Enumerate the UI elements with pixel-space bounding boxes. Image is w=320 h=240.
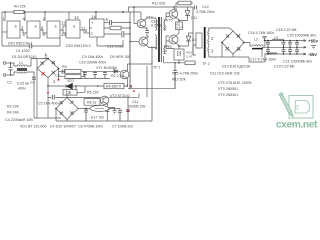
capacitor C9 [83, 71, 87, 78]
wire bridge2 top [67, 92, 70, 121]
node VD1 row dots [47, 85, 128, 87]
transformer TP2 secondary [208, 29, 209, 52]
svg-text:2: 2 [53, 79, 56, 84]
wire mid rail start [262, 47, 265, 57]
transistor VT3 [137, 19, 146, 28]
inductor L1 bottom winding [17, 72, 27, 73]
svg-text:С21 10000Mk 80v: С21 10000Mk 80v [283, 59, 312, 63]
node [107, 107, 109, 109]
thyristor box U1 [63, 90, 77, 96]
wire bridge bottom to bottom rail [233, 54, 272, 62]
svg-text:0,33 мк: 0,33 мк [17, 81, 29, 85]
terminal AC input bottom [3, 74, 10, 77]
node [174, 62, 180, 64]
wire bottom rail y118 [34, 117, 61, 119]
arrow +65v [304, 40, 307, 42]
svg-text:0,47: 0,47 [176, 26, 182, 30]
capacitor C20 [288, 41, 292, 48]
capacitor C21 [288, 47, 292, 54]
pin labels TP2 [211, 36, 214, 53]
wire VT4 base [130, 41, 139, 43]
label transistors list [218, 81, 251, 97]
transformer TP1 core [158, 17, 160, 62]
svg-text:R10: R10 [187, 50, 193, 54]
capacitor C23 [295, 47, 299, 54]
capacitor C18 [266, 41, 270, 48]
svg-text:С18 0,22 Mk: С18 0,22 Mk [276, 28, 297, 32]
svg-text:100Mk 25v: 100Mk 25v [128, 104, 146, 108]
wire TP2 to bridge top [209, 28, 233, 31]
wire U1 out [76, 86, 85, 92]
svg-text:cxem.net: cxem.net [276, 120, 318, 129]
svg-text:С5 1Mk 400v: С5 1Mk 400v [38, 102, 59, 106]
pin numbers DD1 [2, 15, 96, 37]
wire rail end drop [130, 7, 141, 89]
node [85, 108, 87, 110]
wire choke out top [27, 59, 37, 67]
transistor VT2 [100, 96, 108, 104]
svg-text:С9 1Mk 400v: С9 1Mk 400v [82, 55, 103, 59]
svg-text:6: 6 [105, 17, 108, 22]
resistor R1a [65, 69, 84, 73]
capacitor C15 [173, 63, 177, 89]
resistor R12 [185, 61, 195, 65]
gate DD1.2 [27, 21, 40, 38]
svg-text:С6 470Mk 100v: С6 470Mk 100v [78, 125, 103, 129]
svg-text:С14: С14 [202, 5, 209, 9]
wire VT1 emitter down [127, 78, 129, 86]
svg-text:VT3: VT3 [146, 16, 153, 20]
wire VT6 emitter [176, 43, 179, 50]
svg-text:VT4 2N5401: VT4 2N5401 [218, 93, 238, 97]
svg-text:2: 2 [211, 36, 214, 41]
node input [10, 62, 12, 76]
capacitor on VT2 emitter [105, 110, 109, 112]
diode D12 [179, 33, 199, 46]
wire R10 links [164, 46, 196, 63]
diode D11 [179, 7, 197, 21]
svg-text:DD2 К561ТМ-2: DD2 К561ТМ-2 [66, 44, 91, 48]
svg-text:L3: L3 [274, 36, 278, 40]
inductor L2 [252, 45, 263, 46]
node red tap [44, 58, 46, 60]
capacitor C14 [193, 6, 196, 56]
svg-text:R3 22К: R3 22К [7, 104, 20, 108]
svg-text:-65v: -65v [308, 52, 317, 57]
capacitor C11 [126, 110, 130, 112]
transformer TP1 winding primary [156, 18, 157, 50]
node red mid [47, 92, 49, 94]
node rail junctions [4, 11, 124, 13]
svg-text:D13-D16 КД213А: D13-D16 КД213А [222, 65, 251, 69]
gate DD1.4 [66, 20, 80, 38]
gate DD1.3 [47, 21, 60, 38]
svg-text:R12 62К: R12 62К [172, 77, 187, 81]
wire VT5 collector to rail [174, 7, 176, 11]
node red tap2 [58, 79, 60, 81]
wire -65V rail [265, 53, 306, 55]
svg-text:5: 5 [85, 28, 88, 33]
capacitor C19 [266, 47, 270, 54]
wire choke out bottom [27, 72, 34, 118]
resistor Rn 22K [14, 10, 25, 13]
resistor R8 box [84, 98, 100, 105]
capacitor C13a [110, 20, 112, 25]
svg-text:С19 0,22 Mk: С19 0,22 Mk [274, 65, 295, 69]
wire VT5 base [166, 13, 169, 17]
wire bridge1 left down [36, 59, 38, 119]
svg-text:R5: R5 [62, 65, 67, 69]
svg-text:Rн 22К: Rн 22К [14, 4, 27, 8]
wire bridge2 left right [56, 109, 90, 122]
svg-text:R4 24К: R4 24К [7, 111, 20, 115]
capacitor C24 [282, 41, 286, 48]
wire TP2 tap3 to bridge bottom [209, 44, 233, 58]
wire relay out [109, 108, 120, 110]
bridge D13-D16 [221, 31, 245, 54]
wire DD2 top pin14 [95, 12, 97, 19]
arrow -65v [304, 53, 307, 55]
wire bridge1 top [37, 54, 49, 59]
capacitor C7 [118, 111, 122, 121]
resistor R10 [187, 50, 193, 58]
svg-text:VT5 VT6 MJE 13009: VT5 VT6 MJE 13009 [218, 81, 251, 85]
wire 0V mid rail [262, 46, 306, 48]
resistor 2K at DD2 out [104, 26, 130, 30]
diode D5 [112, 70, 120, 74]
arrow 0v [304, 46, 307, 48]
wire cap bank rail [66, 71, 118, 78]
svg-text:D7-D10 1N4007: D7-D10 1N4007 [50, 125, 76, 129]
svg-text:ТР 1: ТР 1 [153, 66, 161, 70]
capacitor C6 [84, 108, 88, 121]
svg-text:С20 10000Mk 80v: С20 10000Mk 80v [287, 34, 316, 38]
wire DD2 pin to C12 [104, 33, 121, 35]
transistor VT5 [169, 10, 178, 19]
watermark cxem.net logo [289, 96, 313, 119]
wire bridge out right [244, 43, 252, 47]
svg-text:С2: С2 [7, 80, 12, 84]
wire input steps [11, 63, 18, 75]
svg-text:С11: С11 [132, 100, 138, 104]
transistor VT6 [169, 35, 178, 44]
node rail dots [267, 40, 298, 55]
node [129, 6, 175, 35]
inductor L2 core [252, 48, 263, 50]
capacitor C2 [9, 63, 13, 75]
transistor VT1 [120, 70, 129, 79]
wire bottom rail y121 [56, 120, 128, 122]
svg-text:R8 1к: R8 1к [87, 101, 97, 105]
svg-text:VT5: VT5 [166, 18, 173, 22]
resistor R6 box [104, 83, 124, 88]
svg-text:С16 4,7Mk 160v: С16 4,7Mk 160v [248, 31, 274, 35]
svg-text:D11 D12 HER 108: D11 D12 HER 108 [210, 71, 240, 75]
wire gate2-gate3 [40, 30, 47, 33]
wire DD2 pin6 [104, 22, 109, 24]
wire DD1 bottom to C1 [2, 38, 60, 46]
wire VT2 emitter down [106, 104, 108, 121]
svg-text:4: 4 [165, 49, 168, 54]
bridge D1-D4 [37, 58, 59, 78]
svg-text:С12 0,068: С12 0,068 [107, 44, 124, 48]
node bridge2 left [55, 108, 57, 110]
svg-text:3: 3 [211, 49, 214, 54]
wire L2 to top rail [263, 41, 272, 47]
wire gate4 out [80, 30, 90, 33]
resistor R13 [176, 1, 193, 7]
svg-text:14: 14 [74, 15, 79, 20]
node VT4 base [129, 41, 131, 43]
svg-text:VD1: VD1 [67, 79, 74, 83]
wire VT4 collector [146, 36, 155, 48]
resistor R1b [65, 71, 84, 78]
transformer TP2 core [204, 27, 206, 58]
svg-text:0,47: 0,47 [187, 55, 193, 59]
wire branch ground [107, 108, 114, 111]
wire box region [128, 60, 152, 121]
ground symbol output [311, 46, 316, 49]
wire VT5 emitter chain [176, 18, 179, 22]
svg-text:С1 1000: С1 1000 [16, 49, 30, 53]
svg-text:VT3 2N5551: VT3 2N5551 [218, 87, 238, 91]
svg-text:С3: С3 [30, 80, 35, 84]
wire VT3 base [134, 23, 137, 25]
transformer TP1 secondary [164, 17, 166, 54]
diode red mark [42, 72, 45, 75]
wire rail to upper right [129, 7, 194, 12]
node red on row [130, 85, 132, 87]
inductor L4 [267, 53, 277, 54]
wire mid verticals [130, 24, 152, 97]
svg-text:400v: 400v [18, 86, 26, 90]
node red [127, 110, 129, 112]
svg-text:ТР 2: ТР 2 [202, 62, 210, 66]
capacitor C22 [295, 41, 299, 48]
wire gate3-gate4 [60, 26, 66, 33]
svg-text:4: 4 [130, 84, 133, 89]
capacitor C3 [32, 77, 36, 79]
transformer TP1 core line2 [160, 17, 162, 62]
wire gate1-gate2 [20, 30, 27, 33]
svg-text:С10 330Mk 400v: С10 330Mk 400v [79, 61, 106, 65]
inductor L3 [272, 39, 284, 40]
wire VT1 collector up [128, 64, 153, 71]
transistor VT4 [139, 37, 148, 46]
node emitter2 [178, 45, 180, 47]
inductor L1 core [17, 69, 27, 70]
capacitor C12 [122, 31, 130, 38]
svg-text:DD1 К561ЛА-7: DD1 К561ЛА-7 [8, 41, 32, 45]
svg-text:12: 12 [61, 20, 66, 25]
svg-text:Е17 15v: Е17 15v [91, 116, 104, 120]
svg-text:+65v: +65v [308, 38, 318, 43]
svg-text:D11: D11 [191, 16, 197, 20]
terminal AC input top [3, 62, 10, 65]
wire left input gate1 [2, 31, 7, 33]
capacitor C4 [62, 69, 64, 73]
capacitor C1 [30, 44, 32, 49]
wire top rail left [2, 12, 141, 46]
inductor L1 top winding [17, 65, 27, 66]
capacitor C10b [103, 71, 107, 78]
IC DD2 K561TM2 [90, 19, 105, 37]
transformer TP2 primary [193, 33, 202, 55]
node emitter [178, 20, 180, 22]
wire bridge1 bottom down [47, 78, 49, 119]
svg-text:VD1 ВТ 131-600: VD1 ВТ 131-600 [20, 125, 47, 129]
wire +65V rail [265, 40, 306, 42]
wire gate input stubs [5, 12, 69, 21]
wire DD2 bottom [97, 37, 123, 46]
wire bridge1 right out [59, 69, 66, 80]
capacitor C10 [93, 71, 97, 78]
svg-text:R6 680 Л: R6 680 Л [106, 85, 122, 89]
wire pin6 cap to bus [112, 22, 130, 24]
svg-text:R2 2,7к: R2 2,7к [111, 74, 124, 78]
wire VT6 base [166, 36, 169, 46]
capacitor C5 [52, 95, 54, 100]
gate DD1.1 [7, 21, 20, 38]
ground symbol small [113, 111, 117, 114]
svg-text:С4: С4 [55, 74, 60, 78]
svg-text:С15 4,7Mk 250v: С15 4,7Mk 250v [172, 71, 198, 75]
svg-text:2: 2 [165, 25, 168, 30]
svg-text:4,7Mk 250v: 4,7Mk 250v [196, 10, 215, 14]
svg-text:C: C [91, 32, 94, 36]
capacitor C25 [282, 47, 286, 54]
svg-text:R5 220: R5 220 [87, 90, 99, 94]
svg-text:R11 62К: R11 62К [152, 2, 166, 6]
svg-text:С4 2200мкФ 10В: С4 2200мкФ 10В [5, 118, 33, 122]
resistor R9 [176, 22, 183, 36]
relay K1 [90, 105, 109, 111]
svg-text:D5 HER 108: D5 HER 108 [110, 55, 130, 59]
winding TP1 aux box [174, 49, 184, 60]
node red pin4 [133, 90, 135, 92]
wire VD1 row [48, 85, 128, 87]
capacitor C13 [145, 27, 149, 37]
wire VT3 collector to TP1 [144, 18, 156, 29]
watermark pencil [279, 93, 293, 117]
svg-text:С7 10Mk 20v: С7 10Mk 20v [112, 125, 133, 129]
bridge D7-D10 [56, 98, 78, 120]
svg-text:L1: L1 [19, 61, 23, 65]
wire y88 row [128, 72, 175, 88]
diode VD1 [66, 83, 73, 89]
svg-text:L2: L2 [254, 38, 258, 42]
wire y97 row [48, 94, 139, 98]
svg-text:С17 4,7Mk 160v: С17 4,7Mk 160v [250, 58, 276, 62]
node extra [283, 40, 285, 55]
